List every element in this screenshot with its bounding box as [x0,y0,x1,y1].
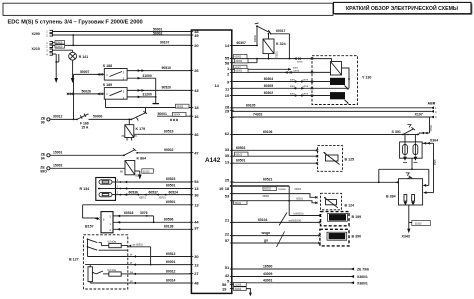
boxed label 50003 [176,104,190,108]
wire 60501 (A142.13 to B125) [232,159,318,164]
svg-text:60017: 60017 [276,29,286,33]
svg-text:57: 57 [225,238,230,243]
svg-text:31000: 31000 [143,170,150,173]
wire 60305 (A142.11 to Y130) [232,84,312,90]
Y130 internal relay [312,59,349,79]
svg-text:16: 16 [194,114,199,119]
svg-text:ZE 79/6: ZE 79/6 [357,268,369,272]
boxed label 50004 [173,112,187,116]
wire 60501 (R134 to A142.13) [116,184,192,190]
glow unit R134 [80,178,116,201]
svg-text:B 124: B 124 [345,204,355,208]
pedal sensor B127 (dashed) [69,235,128,289]
sensor B390 (dashed, speed) [318,229,361,246]
wire 74302 (A142 to X197/ABR.3) [232,112,434,118]
A142 left pin numbers [194,29,199,286]
Y130 boundary pin marks [311,57,313,96]
connector X290 [32,30,53,38]
svg-text:60519: 60519 [164,130,174,134]
wire 50000 (fuse to K179 area) [89,115,132,120]
sensor B157 [85,212,113,233]
svg-text:60106: 60106 [263,130,273,134]
wire 50007 (to S188.1) [74,70,105,76]
ECU A142 box [191,30,231,293]
wire 60302 (A142.10 to Y130) [232,91,312,97]
svg-text:штек.: штек. [303,85,309,88]
wire 50002 (X290.2 to A142.49) [53,31,192,46]
wire 60521 (A142.25 to S384) [232,178,400,183]
ground bar (31000/31200) [153,103,159,105]
switch S384 [395,173,412,184]
wire 60304 (A142.9 to Y130) [232,77,312,83]
svg-text:Y 130: Y 130 [362,76,371,80]
A142 right pin numbers [214,43,230,291]
svg-text:60506: 60506 [164,218,174,222]
svg-text:B 390: B 390 [352,234,362,238]
svg-text:31000: 31000 [235,288,242,291]
svg-text:A142: A142 [205,157,221,164]
B127 resistor 6,8 kOm (top) [101,241,127,248]
wire 60501 shield loop (A142.13 to B157.6) [83,200,192,219]
wire 60017 [270,29,289,58]
temp sensor B124 (dashed) [321,193,355,210]
Y130 solenoid 2 [312,79,349,104]
ground (K864) [138,175,142,180]
svg-text:X290: X290 [32,32,40,36]
sensor B384 box [386,179,423,205]
svg-text:9505: 9505 [434,159,437,165]
svg-text:60101: 60101 [235,202,242,205]
wire 50001 (X290.1 to A142.48) [53,27,192,31]
wire S188.2 ground branch 31000 [127,74,156,80]
svg-text:60521: 60521 [263,178,273,182]
relay K179 coil [122,119,146,141]
svg-text:60501: 60501 [263,195,270,198]
ground (X210.4) [54,78,58,83]
wire 60307 (A142.14) [232,41,257,46]
boxed label 21306 (A142.58) [232,283,246,287]
boxed label 50009 [55,45,65,48]
svg-text:50026: 50026 [82,89,92,93]
switch S391 [392,125,430,136]
B127 potentiometer [85,265,128,283]
wire S188.3 to A142.26 : 90510 [127,66,191,72]
terminal ZE 99O [40,166,50,174]
wire 15001 (ZE94 to K864 contact) [50,151,124,156]
svg-text:60105: 60105 [246,103,256,107]
svg-text:36: 36 [194,192,199,197]
wire K864 to ground [135,171,140,175]
svg-text:60305: 60305 [264,84,274,88]
svg-text:X343: X343 [402,235,410,239]
svg-text:43: 43 [194,88,199,93]
svg-text:53: 53 [225,194,230,199]
svg-text:15 A: 15 A [81,125,89,129]
boxed label 60301 [234,65,248,69]
wire 60104 (A142.21 to B199) [232,213,320,226]
svg-text:21306: 21306 [235,284,242,287]
svg-text:10: 10 [225,93,230,98]
wire to lamp R141 (X210.3) [53,50,73,52]
svg-text:60302: 60302 [264,91,274,95]
svg-text:90107: 90107 [160,41,170,45]
svg-text:B 199: B 199 [352,215,362,219]
wire 60301 (A142.1) [232,66,299,70]
svg-text:60523: 60523 [166,177,176,181]
svg-text:штек.: штек. [303,78,309,81]
wire 60513 (B127 to A142.30) [128,252,192,258]
svg-text:21: 21 [225,217,230,222]
boxed label 60301 [235,68,249,72]
wire 15002 (ZE99O to K864 coil) [50,164,125,169]
svg-text:74302: 74302 [253,112,263,116]
svg-text:X210: X210 [32,47,40,51]
svg-text:16500: 16500 [263,265,273,269]
svg-text:14: 14 [225,43,230,48]
wire 60102 boxed (A142.35 to B125) [232,152,318,156]
svg-text:60518: 60518 [124,211,134,215]
wire vertical (pair down to B199 row) [288,186,290,216]
svg-text:20: 20 [194,43,199,48]
svg-text:50003: 50003 [177,105,184,108]
title box: КРАТКИЙ ОБЗОР ЭЛЕКТРИЧЕСКОЙ СХЕМЫ [334,2,472,14]
header bar (empty) [3,3,333,15]
node X197 [415,113,423,117]
B127 wires rows inside [88,250,128,256]
svg-text:35: 35 [225,153,230,158]
wire riser 60006 to switch [254,26,258,46]
svg-text:S 189: S 189 [103,83,112,87]
svg-text:60304: 60304 [264,77,274,81]
wire 60519 (K179 to A142.46) [134,130,192,135]
wire 90002 (to A142.47) [137,148,191,153]
wire 60502 (A142.33 to B125) [232,146,318,151]
svg-text:60003: 60003 [264,188,271,191]
svg-text:48: 48 [194,281,199,286]
switch (above K324) [255,23,271,34]
svg-text:70001: 70001 [276,51,279,58]
wire wsgn (A142.22 to B390) [232,231,320,236]
svg-text:60524: 60524 [169,190,179,194]
wire 60138 (B157.2 to A142.37) [113,225,191,231]
svg-text:60501: 60501 [236,159,246,163]
svg-text:18: 18 [225,186,230,191]
boxed label 31000 (A142.19) [232,287,252,296]
svg-text:60004: 60004 [236,60,243,63]
svg-text:60003: 60003 [235,56,242,59]
svg-text:18: 18 [194,105,199,110]
svg-text:ХВП/1: ХВП/1 [139,197,147,200]
wire 50001/50004 (A142.16) [157,112,191,116]
svg-text:60301: 60301 [236,70,243,73]
svg-text:94: 94 [41,157,45,161]
svg-text:K 324: K 324 [276,42,286,46]
svg-text:R 141: R 141 [79,55,89,59]
A142 left pin ticks [190,32,194,284]
svg-text:50004: 50004 [174,114,181,117]
svg-text:33: 33 [225,147,230,152]
svg-text:ws 60501: ws 60501 [133,243,144,246]
wire 60523 (R134 to A142.54) [116,177,192,183]
svg-text:46: 46 [194,132,199,137]
wire lv(60501) to B199 [289,212,320,215]
svg-text:50001: 50001 [158,112,168,116]
svg-text:ws6(60104): ws6(60104) [289,219,302,222]
svg-text:60012: 60012 [166,269,176,273]
svg-text:31000: 31000 [415,223,422,226]
A142 right pin ticks [230,46,234,289]
sensor B199 (dashed, needle lift) [319,212,361,226]
svg-text:S 188: S 188 [103,64,112,68]
svg-text:60537: 60537 [149,190,159,194]
wire 43001 (A142.5 to X360/1) [232,278,368,285]
svg-text:50007: 50007 [80,70,90,74]
node ABR [428,102,438,120]
svg-text:99O: 99O [40,170,47,174]
wire lamp to ground [72,60,74,78]
S391 indicator box [400,135,423,161]
svg-text:60502: 60502 [236,146,246,150]
svg-text:EDC M(S) 5 ступень 3/4 – Грузо: EDC M(S) 5 ступень 3/4 – Грузовик F 2000… [8,20,143,26]
svg-text:49: 49 [194,33,199,38]
wire 74501 (riser S391 to ABR.3) [430,117,433,133]
svg-text:47: 47 [194,150,199,155]
relay K324 [263,33,286,59]
svg-text:43001: 43001 [263,278,273,282]
svg-text:37: 37 [194,225,199,230]
wire ws 60501 (B127 out) [128,243,152,265]
svg-text:3076: 3076 [140,211,148,215]
svg-text:19: 19 [222,287,227,292]
svg-text:13: 13 [194,203,199,208]
wire 30012 (ZE99 to fuse F168) [50,115,77,120]
svg-text:29: 29 [225,108,230,113]
svg-text:13: 13 [225,159,230,164]
svg-text:R 134: R 134 [80,187,90,191]
S391 ground ticks [403,161,417,163]
wire gn (A142.57 to B390) [232,232,320,248]
svg-text:штек.: штек. [303,92,309,95]
svg-text:31000: 31000 [142,74,152,78]
B127 idle switches [87,238,102,250]
wire 60003 (A142.55 to Y130 relay) [232,57,312,63]
relay K864 coil [120,157,146,178]
wire vertical collector to ground bar [155,78,157,103]
wire 50003 (A142.18) [106,107,192,109]
svg-text:60307: 60307 [237,41,247,45]
svg-text:X360/1: X360/1 [357,275,368,279]
boxed label 31000 (B384 ground) [412,220,431,225]
relay contact K179 (switch) [131,108,148,121]
svg-text:60003: 60003 [295,188,302,191]
connector marks xxx below 50004 [170,119,178,121]
svg-text:25: 25 [225,177,230,182]
wire 60301 (A142.2 to Y130 relay coil) [232,69,312,73]
svg-text:lv(60501): lv(60501) [294,212,304,215]
svg-text:K 179: K 179 [136,127,146,131]
svg-text:44: 44 [194,220,199,225]
wire X210.1 stub [53,43,59,63]
svg-text:60536: 60536 [129,190,139,194]
svg-text:15002: 15002 [53,164,63,168]
wire 60105 pair to ABR (A142.28/29) [232,103,434,113]
svg-text:74501: 74501 [430,124,433,131]
svg-text:ABR: ABR [428,102,436,106]
svg-text:50009: 50009 [56,46,63,49]
svg-text:30012: 30012 [53,115,63,119]
connector X210 [32,41,53,56]
svg-text:wsgn: wsgn [261,231,271,235]
terminal ZE 94 [41,153,50,161]
Y130 solenoid 1 [312,78,350,90]
svg-text:50000: 50000 [93,115,103,119]
svg-text:15001: 15001 [53,151,63,155]
svg-text:26: 26 [194,68,199,73]
svg-text:14: 14 [214,83,219,88]
wire 90107 (X210.2 to A142.20) [53,41,192,46]
svg-text:13: 13 [194,262,199,267]
svg-text:B157: B157 [85,225,94,229]
wire 60014 (B127 to A142.48) [128,278,192,284]
node X343 with ground arrow [402,229,411,239]
terminal ZE 99 [41,117,50,125]
svg-text:60513: 60513 [166,252,176,256]
temp sensor B125 (dashed) [316,146,354,172]
wire B384 to ground X343 [409,205,412,230]
svg-text:90002: 90002 [164,148,174,152]
svg-text:27: 27 [194,271,199,276]
svg-text:X364: X364 [430,138,438,142]
svg-text:60014: 60014 [166,278,176,282]
svg-text:КРАТКИЙ ОБЗОР ЭЛЕКТРИЧЕСКОЙ СХ: КРАТКИЙ ОБЗОР ЭЛЕКТРИЧЕСКОЙ СХЕМЫ [346,4,458,12]
boxed label 60003 [234,54,248,58]
wire 50026 (to S189.1) [67,89,105,95]
svg-text:51: 51 [225,265,230,270]
wire 60506 (B157.1 to A142.44) [113,218,191,224]
switch S188 (engine brake) [103,64,127,81]
wire 16500 (A142.51 to ZE79/6) [232,265,369,272]
svg-text:B 384: B 384 [386,195,396,199]
wire 60003 pair (A142.19/18) [232,185,302,191]
boxed label 60004 [235,59,249,63]
svg-text:90510: 90510 [162,66,172,70]
svg-text:штек.: штек. [294,69,300,72]
svg-text:60006: 60006 [254,35,257,42]
wire 60001 (B127 to A142.13) [128,260,192,266]
svg-text:43009: 43009 [263,272,273,276]
boxed label 50008 [55,41,65,44]
boxed label 31000 (K864) [142,169,154,173]
relay contact K864 (switch) [123,148,138,156]
svg-text:90520: 90520 [162,86,172,90]
wire S189 bottom to 50003 row [105,99,107,107]
svg-text:60501: 60501 [166,200,176,204]
wire 60106 (A142.62 to S391) [232,130,403,135]
svg-text:19: 19 [219,186,224,191]
lamp R141 [69,52,88,60]
svg-text:62: 62 [225,131,230,136]
fuse F168 15A [76,114,89,130]
svg-text:42: 42 [225,273,230,278]
svg-text:gr: gr [130,262,132,265]
svg-text:22: 22 [225,231,230,236]
svg-text:br: br [130,253,132,256]
wire S189.3 to A142.43 : 90520 [127,86,191,92]
svg-text:X197: X197 [415,113,423,117]
svg-text:штек.: штек. [297,61,303,64]
wire S189.2 ground branch 31200 [127,93,156,99]
svg-text:gn: gn [264,239,268,243]
wire 60536/60537/60524 (R134 to A142.36) [116,190,192,199]
svg-text:13: 13 [194,186,199,191]
wire 60518/3076 (B157.5 jumper) [113,211,154,222]
wire S391 ground loop to B384 [378,158,429,187]
pump unit Y130 (dashed box) [312,56,371,105]
svg-text:31200: 31200 [142,93,152,97]
svg-text:50002: 50002 [153,31,163,35]
svg-text:99: 99 [41,121,45,125]
svg-text:B 125: B 125 [345,158,355,162]
svg-text:54: 54 [194,179,199,184]
wire 60004 (A142.58) [232,58,258,63]
wire 60012 (B127 to A142.27) [128,269,192,275]
svg-text:58: 58 [225,60,230,65]
svg-text:60501: 60501 [296,198,303,201]
svg-text:60102: 60102 [236,153,243,156]
svg-text:30: 30 [194,254,199,259]
svg-text:X360/1: X360/1 [357,282,368,286]
svg-text:60138: 60138 [164,225,174,229]
wire riser feeding S188/S189 from 30012 [73,74,75,120]
B127 resistor 6,8 kOm (bottom) [103,269,128,276]
svg-text:60104: 60104 [258,218,268,222]
wire X210.4 to ground [53,54,57,78]
svg-text:S 391: S 391 [392,130,401,134]
svg-text:B 127: B 127 [69,258,79,262]
svg-text:Клема: Клема [279,188,287,191]
svg-text:50008: 50008 [56,41,63,44]
switch S189 (exhaust brake) [103,83,127,100]
svg-text:60001: 60001 [166,260,176,264]
wire 60501 (A142.53 to B124 top) [232,194,318,199]
wire 60101/60501 (to B124 bottom) [232,198,318,205]
svg-text:60501: 60501 [166,184,176,188]
svg-text:K 864: K 864 [137,157,147,161]
wire 43009 (A142.42 to X360/1) [232,272,368,279]
ground (lamp R141) [71,78,75,83]
wire vertical (X364 down to B384 right pin) [423,143,437,194]
node X364 [422,138,438,144]
